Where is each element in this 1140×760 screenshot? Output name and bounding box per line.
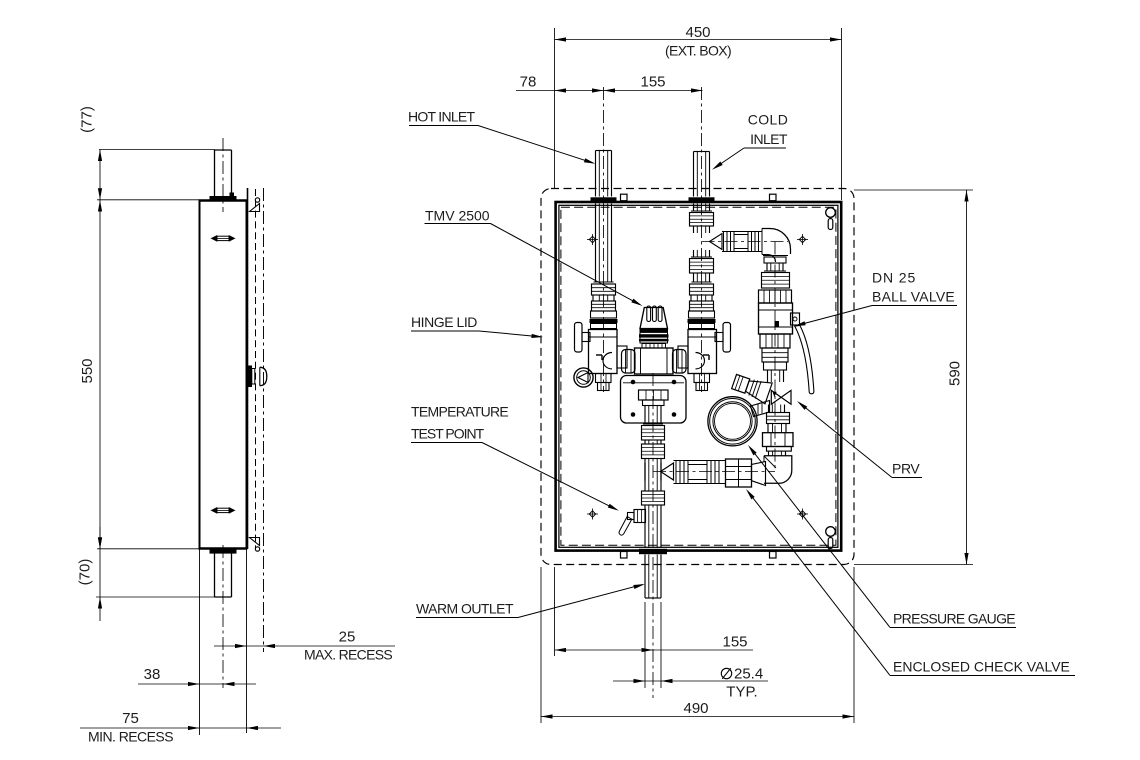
pressure gauge stem [751,401,770,417]
svg-text:25: 25 [339,629,356,646]
check valve cone into tee [661,463,674,480]
hot inlet flange [591,197,617,202]
warm outlet flange [639,549,667,554]
TMV right union nut [673,350,687,374]
front view: top fixing tabs [621,194,628,201]
cold pipe lower press coupling [691,256,712,258]
TMV knob [640,308,668,329]
hot isolation valve upper rings [591,311,617,318]
svg-text:(77): (77) [79,106,96,133]
side view: upper fixing arrow symbol [217,236,229,240]
svg-text:38: 38 [144,666,161,683]
riser pipe segment [767,424,769,433]
cold pipe upper press coupling [691,210,712,212]
TMV body [635,348,674,374]
svg-text:155: 155 [722,634,747,651]
warm pipe press coupling 3 [642,491,665,505]
dimension 550 extension line [97,548,199,550]
svg-text:550: 550 [79,358,96,383]
TMV bonnet [642,344,666,349]
TMV mounting plate [621,376,687,424]
dimension diameter 25.4 extension lines [644,602,646,688]
side view: bottom pipe centerline [222,545,224,688]
warm pipe press coupling 2 [642,444,665,459]
hot isolation valve body [589,330,618,374]
svg-text:TYP.: TYP. [726,684,757,701]
svg-text:ENCLOSED CHECK VALVE: ENCLOSED CHECK VALVE [893,659,1070,675]
side view: bottom outlet pipe [214,553,216,597]
cold line press coupling at valve [692,281,712,283]
svg-text:MIN. RECESS: MIN. RECESS [88,729,173,745]
PRV bowtie body [771,390,791,404]
front view: lid hidden dashed outline [561,207,836,545]
front view: target mark top-right [799,236,805,242]
side view: lid front edge line [247,188,249,549]
svg-text:HINGE LID: HINGE LID [411,314,477,330]
warm outlet pipe below box [644,555,646,599]
svg-text:TMV 2500: TMV 2500 [425,208,490,224]
svg-text:78: 78 [520,74,537,91]
front view: bottom keyhole [826,527,836,537]
bottom elbow body [764,456,792,484]
temperature test point fitting [634,510,646,523]
riser union collar [767,447,792,452]
cold line centerline [701,87,703,392]
svg-text:DN 25: DN 25 [872,270,916,286]
svg-text:PRESSURE GAUGE: PRESSURE GAUGE [893,611,1015,627]
dimension 450 extension lines [554,28,556,188]
cold inlet pipe inside box [693,204,695,212]
hot valve drain cock [574,368,593,387]
side view: door latch [248,366,252,388]
svg-text:PRV: PRV [892,461,920,477]
svg-text:COLD: COLD [748,112,789,128]
svg-text:590: 590 [947,361,964,386]
dimension (77) line and arrows [99,150,101,200]
side view: front face extension line [246,549,248,733]
cold branch elbow [762,229,791,255]
svg-text:INLET: INLET [750,131,788,147]
dimension diameter 25.4 line [613,680,768,682]
ball valve body [759,303,793,334]
front view: wall recess dashed outline [541,189,854,565]
dimension diameter 25.4 symbol [721,668,731,678]
svg-text:450: 450 [685,24,710,41]
check valve grooved coupling [675,461,677,484]
riser pipe below elbow [766,263,768,271]
side view: box body [200,201,247,549]
cold valve lower hex nuts [694,374,710,383]
side view: top inlet pipe [214,150,216,196]
front view: bottom fixing tabs [621,552,628,559]
TMV plate screws [631,380,636,385]
ball valve top nut [759,290,792,303]
right riser centerline [774,242,776,472]
check valve large hex nut [726,459,752,487]
cold isolation valve upper rings [689,311,715,318]
cold branch elbow outlet flange [763,255,788,257]
front view: box outer frame [556,202,842,551]
svg-text:(EXT. BOX): (EXT. BOX) [665,43,731,59]
svg-text:155: 155 [640,74,665,91]
dimension (70) extension line [96,596,215,598]
hot valve lower hex nuts [596,374,612,383]
dimension 590 extension lines [854,189,973,191]
svg-text:HOT INLET: HOT INLET [408,109,476,125]
cold inlet flange [689,197,715,202]
riser pipe below PRV [768,405,770,413]
ball valve center mark [775,321,780,328]
svg-text:75: 75 [122,710,139,727]
cold valve tee handle [723,323,731,353]
side view: rear face extension line [199,549,201,735]
dimension 78 and 155 line [516,90,703,92]
riser neck above elbow [768,451,770,456]
hot inlet pipe above box [595,151,597,197]
dimension 490 extension lines [540,567,542,723]
dimension 590 line [966,190,968,565]
riser union hex nut [763,433,794,447]
temperature test point lever [619,517,632,536]
dimension 490 line [541,716,854,718]
hot inlet pipe inside box [595,204,597,283]
riser short pipe [767,370,769,382]
cold valve outlet union to TMV [678,346,688,368]
svg-text:TEMPERATURE: TEMPERATURE [411,404,508,420]
warm pipe segment [644,440,646,444]
cold tee cone [710,234,723,250]
cold pipe between coupling and tee [693,226,695,233]
TMV outlet nut below plate [639,390,669,400]
ball valve lever [795,325,814,394]
PRV pressure reducing valve [731,371,773,404]
riser ring coupling below PRV [767,413,790,424]
side view: lower fixing arrow symbol [217,508,229,512]
svg-text:WARM OUTLET: WARM OUTLET [416,601,514,617]
front view: target mark top-left [589,236,595,242]
hot line centerline [603,87,605,392]
riser coupling below ball valve [762,348,788,362]
hot line press coupling [594,281,614,283]
front view: target mark bottom-right [799,511,805,517]
side view: top hinge bracket [250,204,260,212]
cold branch grooved coupling [723,232,725,252]
warm outlet centerline [652,373,654,698]
front view: box inner frame line [559,205,838,547]
warm pipe below TMV [644,406,646,425]
svg-text:25.4: 25.4 [734,666,763,683]
front view: target mark bottom-left [589,511,595,517]
cold branch horizontal centerline [702,241,789,243]
side view: bottom pipe flange [210,549,237,554]
dimension 75 MIN. RECESS line [80,727,281,729]
TMV knurled collar [640,330,669,333]
warm pipe to test point [644,505,646,548]
hot valve outlet union to TMV [617,346,627,368]
dimension 550 line and arrows [99,200,101,549]
side view: top pipe centerline [222,138,224,212]
cold inlet pipe above box [693,152,695,197]
cold pipe between tee and lower coupling [693,250,695,257]
riser press coupling [764,270,786,272]
TMV left union nut [622,350,636,374]
svg-text:MAX. RECESS: MAX. RECESS [304,647,392,663]
dimension 25 MAX. RECESS line [214,645,395,647]
side view: wall face line [263,188,265,652]
side view: bottom hinge bracket [250,538,260,546]
front view: top keyhole [826,208,836,218]
warm pipe press coupling 1 [643,423,663,425]
dimension 155 bottom extension line [554,567,556,656]
svg-text:490: 490 [683,700,708,717]
check valve horizontal centerline [653,471,775,473]
svg-text:BALL VALVE: BALL VALVE [872,289,955,305]
svg-text:(70): (70) [77,559,94,586]
check valve taper to elbow [752,462,766,486]
dimension 38 line [138,683,256,685]
dimension (70) line and arrows [99,527,101,621]
side view: lid open dashed line [255,189,257,549]
svg-text:TEST POINT: TEST POINT [411,426,485,442]
cold pipe to valve [693,273,695,282]
dimension (77) extension lines [99,149,215,151]
hot valve tee handle [575,323,583,353]
TMV plate top rail line [623,382,684,384]
ball valve lever mount [791,313,800,325]
dimension 155 bottom line [555,649,754,651]
warm pipe segment to tee [644,459,646,492]
ball valve lower union [760,334,790,348]
side view: top pipe flange [210,196,237,201]
pressure gauge dial [708,397,757,446]
cold isolation valve body [688,330,717,374]
dimension 450 line [555,39,842,41]
